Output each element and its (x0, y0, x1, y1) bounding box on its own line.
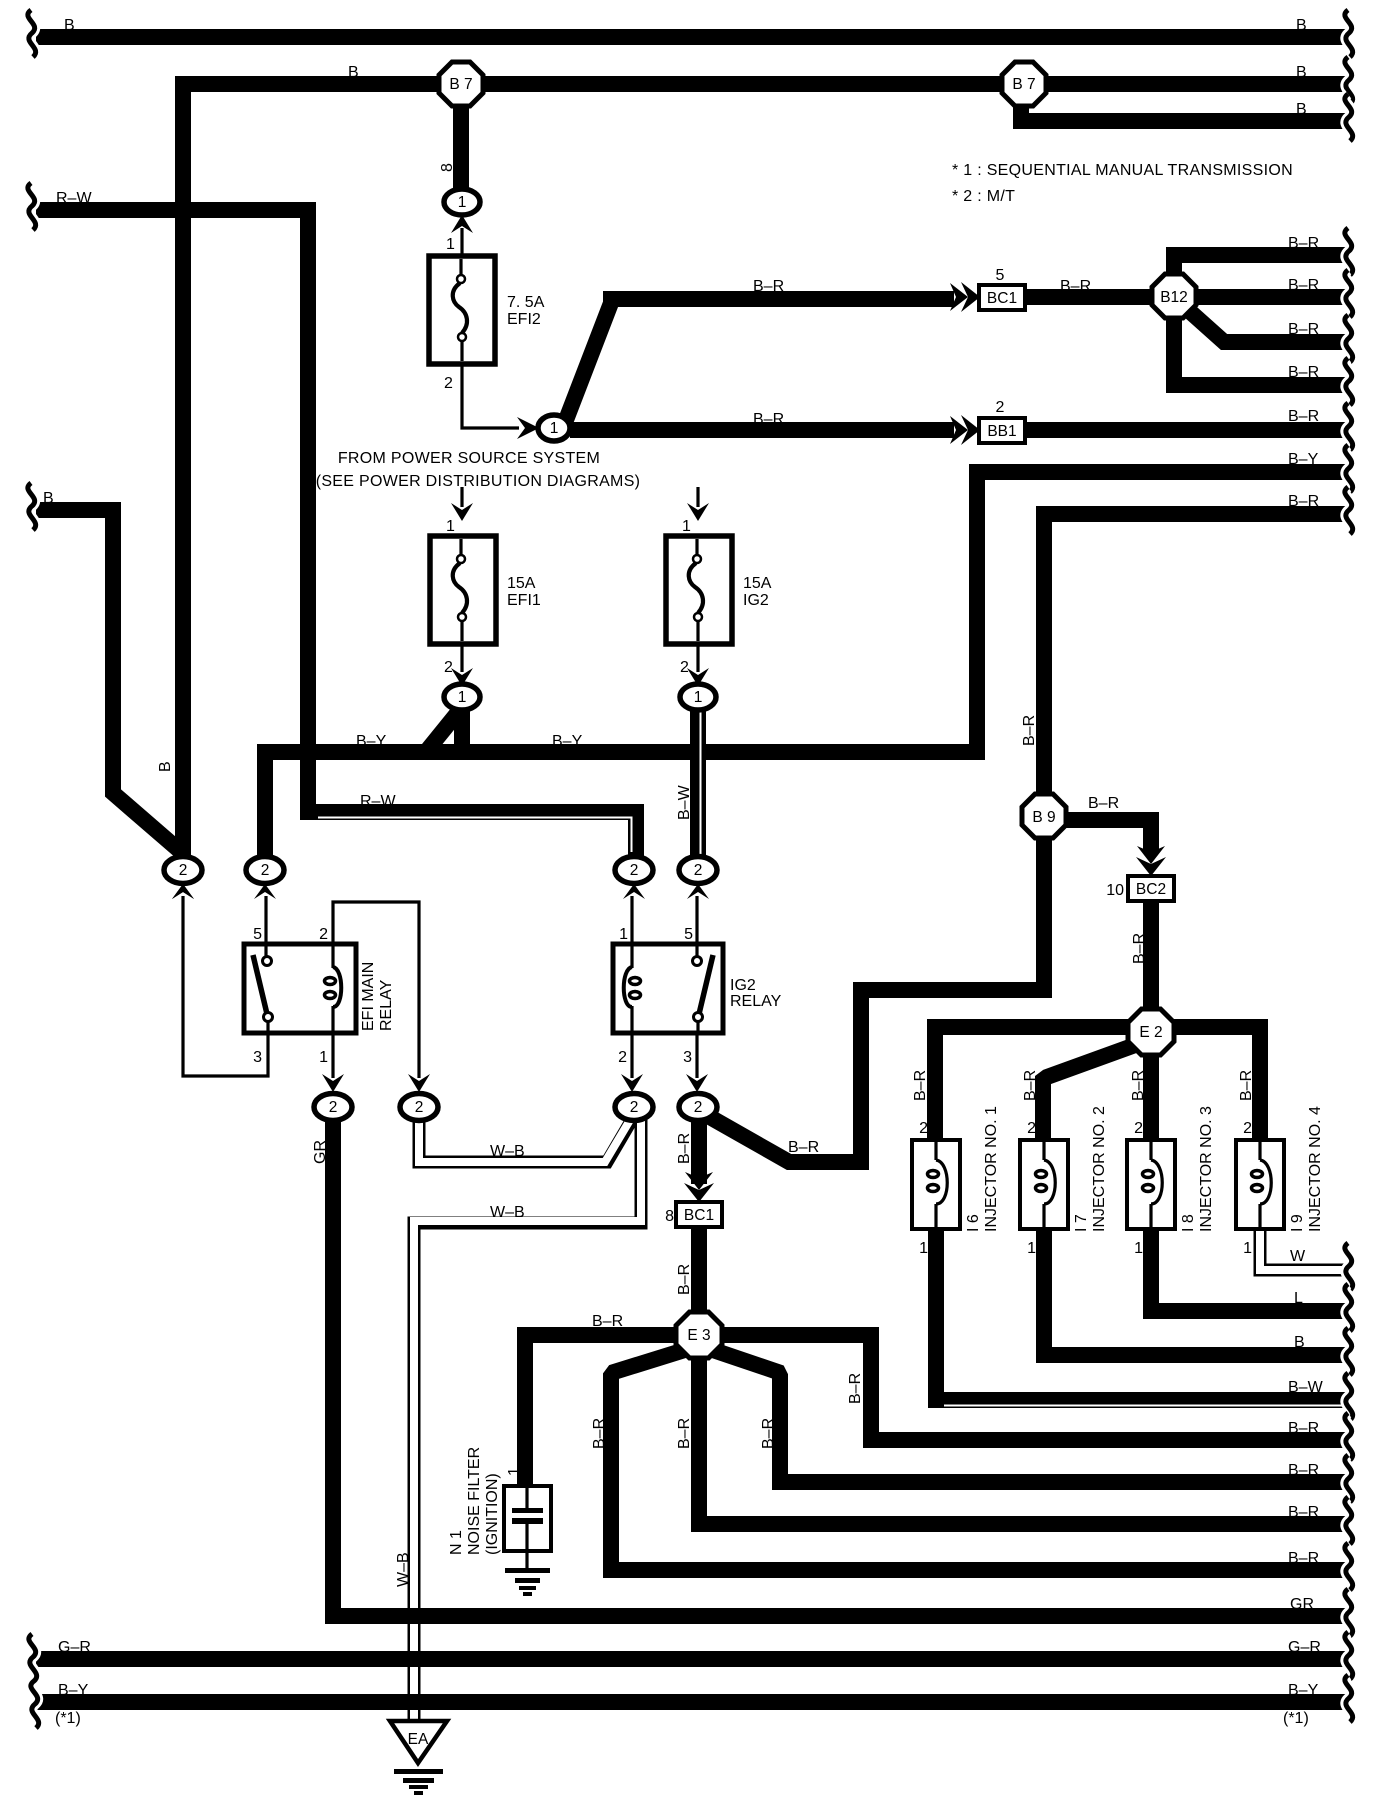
svg-text:EA: EA (408, 1731, 429, 1748)
injector no.3 I8 (1127, 1140, 1175, 1229)
wire B left branch: from left edge down and diagonal into vertical B wire (36, 510, 180, 851)
svg-text:5: 5 (996, 267, 1005, 284)
svg-text:B–W: B–W (676, 784, 693, 820)
svg-text:2: 2 (630, 1099, 639, 1116)
wire: fuse EFI2 pin 1 thin lead with arrow into oval (451, 215, 473, 256)
svg-text:BC1: BC1 (684, 1207, 714, 1224)
svg-text:B–R: B–R (1022, 1070, 1039, 1101)
svg-text:EFI2: EFI2 (507, 311, 541, 328)
svg-text:(*1): (*1) (1283, 1710, 1309, 1727)
connector BC2 (pin 10) (1128, 876, 1174, 901)
node oval 2 (IG2 relay pin 2 to W-B wire) (615, 1094, 653, 1121)
svg-text:INJECTOR NO. 3: INJECTOR NO. 3 (1198, 1106, 1215, 1232)
svg-text:B–R: B–R (1288, 1504, 1319, 1521)
double arrow into BC2 (1137, 846, 1165, 864)
injector no.4 I9 (1236, 1140, 1284, 1229)
wire B-W (striped): injector no.1 pin 1 down and right to edge (936, 1229, 1346, 1406)
svg-text:2: 2 (1027, 1120, 1036, 1137)
svg-text:NOISE FILTER: NOISE FILTER (466, 1447, 483, 1555)
svg-text:B–R: B–R (592, 1313, 623, 1330)
svg-text:1: 1 (550, 420, 559, 437)
continuation squiggle (right edge, y37) (1345, 10, 1353, 57)
wire B (battery feed) top horizontal (36, 29, 1346, 45)
wire: junction B7 down to fuse EFI2 oval (453, 100, 469, 190)
svg-text:1: 1 (319, 1049, 328, 1066)
svg-text:2: 2 (618, 1049, 627, 1066)
svg-text:1: 1 (446, 518, 455, 535)
svg-text:B: B (1294, 1334, 1305, 1351)
node oval 1 (fuse IG2 output) (680, 684, 716, 710)
svg-text:2: 2 (996, 399, 1005, 416)
ground connection EA (triangle) (390, 1721, 447, 1763)
node oval 1 (B7 to fuse EFI2) (444, 189, 480, 215)
continuation squiggle (right edge, y1524) (1345, 1497, 1353, 1544)
relay EFI MAIN RELAY (244, 944, 356, 1033)
node oval 1 (fuse EFI2 output) (538, 415, 570, 441)
svg-text:B: B (1296, 64, 1307, 81)
svg-text:* 1 : SEQUENTIAL MANUAL TRANSM: * 1 : SEQUENTIAL MANUAL TRANSMISSION (952, 162, 1293, 179)
svg-text:B: B (1296, 17, 1307, 34)
continuation squiggle (right edge, y1570) (1345, 1543, 1353, 1590)
wire: IG2 relay pin 1 lead (630, 896, 633, 947)
svg-text:15A: 15A (743, 575, 772, 592)
svg-text:GR: GR (312, 1140, 329, 1164)
svg-text:2: 2 (680, 659, 689, 676)
continuation squiggle (right edge, y1270) (1345, 1243, 1353, 1290)
wire: IG2 relay pin 5 lead (695, 896, 698, 947)
value label 15A IG2 (743, 575, 772, 609)
wire B-R: junction E2 bottom to injector no.3 pin 2 (1143, 1050, 1159, 1140)
svg-text:B: B (157, 761, 174, 772)
svg-text:W–B: W–B (395, 1552, 412, 1587)
continuation squiggle (left, wires G-R and B-Y) (29, 1634, 39, 1728)
wire B-R: junction B12 branch 2 (straight right to edge) (1195, 289, 1346, 305)
svg-text:B–Y: B–Y (552, 733, 583, 750)
node oval 2 (IG2 relay pin 3 to B-R wire) (679, 1094, 717, 1121)
svg-text:B 7: B 7 (1012, 76, 1035, 93)
continuation squiggle (left, wire B branch) (28, 483, 36, 530)
svg-text:2: 2 (630, 862, 639, 879)
svg-text:B–R: B–R (1060, 278, 1091, 295)
svg-text:EFI1: EFI1 (507, 592, 541, 609)
wire R-W: from left edge, down, across to IG2 relay pin1 oval (36, 210, 636, 858)
svg-text:B–R: B–R (1288, 321, 1319, 338)
svg-text:B–R: B–R (1088, 795, 1119, 812)
wire B-R: junction B12 branch 3 (diagonal down right to edge) (1186, 308, 1346, 342)
svg-text:G–R: G–R (58, 1639, 91, 1656)
junction connector B7 (right) (1002, 62, 1046, 106)
svg-text:W–B: W–B (490, 1204, 525, 1221)
wire L: injector no.3 pin 1 down and right to edge (1151, 1229, 1346, 1311)
fuse IG2 15A (666, 536, 732, 644)
wire B-R: junction E3 right arm, down, right to edge (718, 1335, 1346, 1440)
wire G-R: left edge to right edge (36, 1651, 1346, 1667)
continuation squiggle (right edge, y1355) (1345, 1328, 1353, 1375)
svg-text:E 3: E 3 (687, 1327, 710, 1344)
node oval 2 (battery B into EFI main relay pin 3 return) (164, 857, 202, 900)
fuse EFI2 7.5A (429, 256, 495, 364)
svg-text:B–R: B–R (753, 411, 784, 428)
svg-text:GR: GR (1290, 1596, 1314, 1613)
svg-text:1: 1 (1134, 1240, 1143, 1257)
node oval 2 (EFI main relay pin 1 to GR wire) (314, 1094, 352, 1121)
junction connector B9 (1022, 794, 1066, 838)
svg-text:I 8: I 8 (1180, 1214, 1197, 1232)
svg-text:2: 2 (444, 375, 453, 392)
svg-text:3: 3 (683, 1049, 692, 1066)
svg-text:1: 1 (506, 1467, 523, 1476)
wire B-W (striped): IG2 fuse oval down to IG2 relay pin5 oval (698, 708, 701, 858)
svg-text:FROM POWER SOURCE SYSTEM: FROM POWER SOURCE SYSTEM (338, 450, 600, 467)
svg-text:B: B (348, 64, 359, 81)
node oval 2 (R-W into IG2 relay pin 1) (615, 857, 653, 900)
value label 15A EFI1 (507, 575, 541, 609)
continuation squiggle (right edge, y255) (1345, 228, 1353, 275)
svg-text:B–R: B–R (1288, 277, 1319, 294)
svg-text:1: 1 (458, 194, 467, 211)
svg-text:1: 1 (694, 689, 703, 706)
continuation squiggle (right edge, y385) (1345, 358, 1353, 405)
node oval 2 (EFI main relay pin 2 to W-B wire) (400, 1094, 438, 1121)
wire B-R: from junction B9 up to corner then right to edge (1044, 514, 1346, 796)
noise filter N1 (ignition) capacitor (504, 1486, 551, 1569)
value label 7.5A EFI2 (507, 294, 545, 328)
feed arrow into fuse EFI1 pin 1 (451, 487, 473, 521)
continuation squiggle (right edge, y1440) (1345, 1413, 1353, 1460)
wire B-R: IG2 relay pin3 oval diagonal to vertical riser to junction B9 (701, 840, 1044, 1162)
svg-text:BB1: BB1 (987, 423, 1016, 440)
connector BC1 (pin 8) (676, 1202, 722, 1227)
wire B: injector no.2 pin 1 down and right to edge (1044, 1229, 1346, 1355)
continuation squiggle (right edge, y121) (1345, 94, 1353, 141)
wire: fuse EFI2 pin 2 thin lead down and right with arrow into oval (462, 364, 539, 439)
wire: fuse IG2 pin 2 lead with arrow into oval (687, 644, 709, 686)
svg-text:5: 5 (684, 926, 693, 943)
double arrow into BB1 (950, 416, 968, 444)
junction connector B12 (1152, 274, 1196, 318)
svg-text:(*1): (*1) (55, 1710, 81, 1727)
wire B-R: junction E3 left arm to noise filter N1 (525, 1335, 680, 1486)
continuation squiggle (left, wire B top) (28, 10, 36, 57)
svg-text:IG2: IG2 (743, 592, 769, 609)
wire B-Y: fuse EFI1 output run, left branch to EFI main relay, right branch up to edge (257, 472, 1346, 858)
double arrow into BC1 (lower) (685, 1172, 713, 1190)
svg-text:B–R: B–R (1288, 493, 1319, 510)
note: transmission footnotes (952, 162, 1293, 205)
continuation squiggle (right edge, y342) (1345, 315, 1353, 362)
svg-text:L: L (1294, 1290, 1303, 1307)
wire B-R: BC1 to junction B12 (1025, 289, 1153, 305)
svg-text:N 1: N 1 (448, 1530, 465, 1555)
wire: EFI main relay pin 1 lead (down to oval) (322, 1030, 344, 1092)
ground symbol (noise filter) (505, 1568, 550, 1596)
double arrow into BC1 (top) (950, 283, 968, 311)
injector no.2 I7 (1020, 1140, 1068, 1229)
wire B-R: junction B9 right to BC2 connector (1066, 820, 1151, 852)
svg-text:B–R: B–R (788, 1139, 819, 1156)
continuation squiggle (right edge, y1311) (1345, 1284, 1353, 1331)
continuation squiggle (right edge, y514) (1345, 487, 1353, 534)
svg-text:1: 1 (682, 518, 691, 535)
svg-text:1: 1 (446, 236, 455, 253)
svg-text:B–R: B–R (1288, 408, 1319, 425)
svg-text:2: 2 (919, 1120, 928, 1137)
continuation squiggle (right edge, y297) (1345, 270, 1353, 317)
svg-text:B–R: B–R (1288, 364, 1319, 381)
svg-text:B12: B12 (1160, 289, 1188, 306)
svg-text:B–R: B–R (1288, 1550, 1319, 1567)
wire: IG2 relay pin 3 lead (down to oval) (686, 1030, 708, 1092)
wire W (hollow): injector no.4 pin 1 to right edge (1260, 1227, 1346, 1270)
svg-text:2: 2 (329, 1099, 338, 1116)
svg-text:B 7: B 7 (449, 76, 472, 93)
svg-text:I 9: I 9 (1289, 1214, 1306, 1232)
wire W-B (hollow) run2: IG2 relay pin2 oval down, left, down to ground EA (414, 1112, 641, 1723)
junction connector B7 (left) (439, 62, 483, 106)
svg-text:1: 1 (619, 926, 628, 943)
svg-text:B–Y: B–Y (1288, 1682, 1319, 1699)
svg-text:B–R: B–R (847, 1373, 864, 1404)
svg-text:B–R: B–R (912, 1070, 929, 1101)
svg-text:8: 8 (439, 163, 456, 172)
ground symbol (EA) (394, 1769, 443, 1795)
feed arrow into fuse IG2 pin 1 (687, 487, 709, 521)
svg-text:INJECTOR NO. 4: INJECTOR NO. 4 (1307, 1106, 1324, 1232)
svg-text:EFI MAIN: EFI MAIN (360, 962, 377, 1031)
wire B-Y bottom: left edge to right edge (36, 1694, 1346, 1710)
svg-text:2: 2 (1134, 1120, 1143, 1137)
svg-text:B–R: B–R (676, 1418, 693, 1449)
wire B second horizontal through junctions B7, with vertical drop to EFI main relay oval (183, 84, 1346, 858)
wire B third: from junction B7 (right) down and right to edge (1021, 100, 1346, 121)
wire B-R: BC1 down to junction E3 (691, 1226, 707, 1318)
continuation squiggle (right edge, y1616) (1345, 1589, 1353, 1636)
note: from power source system (316, 450, 641, 490)
svg-text:7. 5A: 7. 5A (507, 294, 545, 311)
svg-text:B–Y: B–Y (1288, 451, 1319, 468)
continuation squiggle (right edge, y1400) (1345, 1373, 1353, 1420)
svg-text:B–R: B–R (591, 1418, 608, 1449)
svg-text:INJECTOR NO. 1: INJECTOR NO. 1 (983, 1106, 1000, 1232)
continuation squiggle (right edge, y1482) (1345, 1455, 1353, 1502)
svg-text:B–R: B–R (1288, 1420, 1319, 1437)
wire B-R: BC2 down to junction E2 (1143, 900, 1159, 1015)
svg-text:10: 10 (1106, 882, 1124, 899)
svg-text:2: 2 (1243, 1120, 1252, 1137)
fuse EFI1 15A (430, 536, 496, 644)
svg-text:* 2 : M/T: * 2 : M/T (952, 188, 1015, 205)
continuation squiggle (right edge, y430) (1345, 403, 1353, 450)
svg-text:B–R: B–R (753, 278, 784, 295)
svg-text:R–W: R–W (56, 190, 92, 207)
component label N 1 NOISE FILTER (IGNITION) (rotated) (448, 1447, 501, 1555)
svg-text:B–R: B–R (1288, 235, 1319, 252)
wire B-R: junction E2 left arm to injector no.1 pin 2 (935, 1027, 1132, 1140)
connector BC1 (pin 5) (979, 285, 1025, 310)
svg-text:(IGNITION): (IGNITION) (484, 1473, 501, 1555)
wire: EFI main relay pin 3 lead (down, left, up to oval) (172, 884, 268, 1076)
svg-text:1: 1 (919, 1240, 928, 1257)
wire B-R: junction E2 diagonal to injector no.2 pin 2 (1043, 1044, 1138, 1140)
svg-text:W–B: W–B (490, 1143, 525, 1160)
continuation squiggle (left, wire R-W) (28, 183, 36, 230)
svg-text:R–W: R–W (360, 793, 396, 810)
svg-text:2: 2 (319, 926, 328, 943)
wire B-R: junction B12 branch 1 (up then right to edge) (1174, 255, 1346, 282)
continuation squiggle (right edge, y1659) (1345, 1632, 1353, 1679)
wire B-R: junction E2 right arm to injector no.4 pin 2 (1170, 1027, 1260, 1140)
svg-text:2: 2 (694, 862, 703, 879)
svg-text:RELAY: RELAY (730, 993, 782, 1010)
injector no.1 I6 (912, 1140, 960, 1229)
svg-text:E 2: E 2 (1139, 1024, 1162, 1041)
continuation squiggle (right edge, y472) (1345, 445, 1353, 492)
relay IG2 RELAY (613, 944, 723, 1033)
svg-text:B: B (43, 490, 54, 507)
svg-text:B–R: B–R (1021, 715, 1038, 746)
svg-text:5: 5 (253, 926, 262, 943)
wire B-R: fuse EFI2 output oval diagonal up to BC1 junction row (566, 299, 954, 420)
svg-text:B–R: B–R (1131, 933, 1148, 964)
svg-text:I 7: I 7 (1073, 1214, 1090, 1232)
svg-text:G–R: G–R (1288, 1639, 1321, 1656)
wire B-R: junction E3 SW diagonal, down, right to edge (611, 1349, 1346, 1570)
svg-text:B 9: B 9 (1032, 809, 1055, 826)
node oval 2 (B-W into IG2 relay pin 5) (679, 857, 717, 900)
svg-text:2: 2 (694, 1099, 703, 1116)
svg-text:(SEE POWER DISTRIBUTION DIAGRA: (SEE POWER DISTRIBUTION DIAGRAMS) (316, 473, 641, 490)
svg-text:1: 1 (458, 689, 467, 706)
svg-text:8: 8 (665, 1208, 674, 1225)
wire B-R: BB1 to right edge (1025, 422, 1346, 438)
svg-text:IG2: IG2 (730, 977, 756, 994)
svg-text:1: 1 (1027, 1240, 1036, 1257)
svg-text:B–W: B–W (1288, 1379, 1324, 1396)
svg-text:RELAY: RELAY (378, 979, 395, 1031)
svg-text:W: W (1290, 1248, 1306, 1265)
svg-text:2: 2 (415, 1099, 424, 1116)
svg-text:I 6: I 6 (965, 1214, 982, 1232)
wire: IG2 relay pin 2 lead (down to oval) (621, 1030, 643, 1092)
wire GR: EFI main relay pin1 oval down, corner, right to edge (333, 1115, 1346, 1616)
wire B-R: junction B12 branch 4 (down then right to edge) (1174, 312, 1346, 385)
svg-text:1: 1 (1243, 1240, 1252, 1257)
svg-text:B–R: B–R (760, 1418, 777, 1449)
svg-text:B–Y: B–Y (356, 733, 387, 750)
connector BB1 (pin 2) (979, 418, 1025, 443)
wire B-R: junction E3 SE diagonal, down, right to edge (710, 1349, 1346, 1482)
svg-text:15A: 15A (507, 575, 536, 592)
svg-text:B–R: B–R (1288, 1462, 1319, 1479)
wire B-R: IG2 relay pin3 oval down to BC1 connector (691, 1112, 707, 1184)
continuation squiggle (right edge, y1702) (1345, 1675, 1353, 1722)
wire: EFI main relay pin 2 lead (up, right, down to oval) (333, 902, 430, 1092)
svg-text:2: 2 (261, 862, 270, 879)
svg-text:B: B (64, 17, 75, 34)
svg-text:B: B (1296, 101, 1307, 118)
svg-text:B–R: B–R (676, 1133, 693, 1164)
wire B-R: fuse EFI2 output oval to BB1 (570, 422, 954, 438)
component label IG2 RELAY (730, 977, 782, 1010)
node oval 2 (B-Y into EFI main relay pin 5) (246, 857, 284, 900)
wire: EFI main relay pin 5 lead (264, 896, 267, 947)
node oval 1 (fuse EFI1 output) (444, 684, 480, 710)
svg-text:BC1: BC1 (987, 290, 1017, 307)
junction connector E2 (1128, 1009, 1174, 1055)
svg-text:3: 3 (253, 1049, 262, 1066)
wire W-B (hollow) run1: EFI relay pin1-side oval to IG2 relay pin2 oval (419, 1110, 634, 1162)
wire B-R: junction E3 bottom, down, right to edge (699, 1352, 1346, 1524)
svg-text:BC2: BC2 (1136, 881, 1166, 898)
svg-text:B–Y: B–Y (58, 1682, 89, 1699)
wire: fuse EFI1 pin 2 lead with arrow into oval (451, 644, 473, 686)
component label EFI MAIN RELAY (rotated) (360, 962, 395, 1031)
svg-text:INJECTOR NO. 2: INJECTOR NO. 2 (1091, 1106, 1108, 1232)
svg-text:B–R: B–R (676, 1264, 693, 1295)
junction connector E3 (676, 1312, 722, 1358)
continuation squiggle (right edge, y84) (1345, 57, 1353, 104)
svg-text:B–R: B–R (1130, 1070, 1147, 1101)
svg-text:2: 2 (179, 862, 188, 879)
svg-text:2: 2 (444, 659, 453, 676)
svg-text:B–R: B–R (1238, 1070, 1255, 1101)
